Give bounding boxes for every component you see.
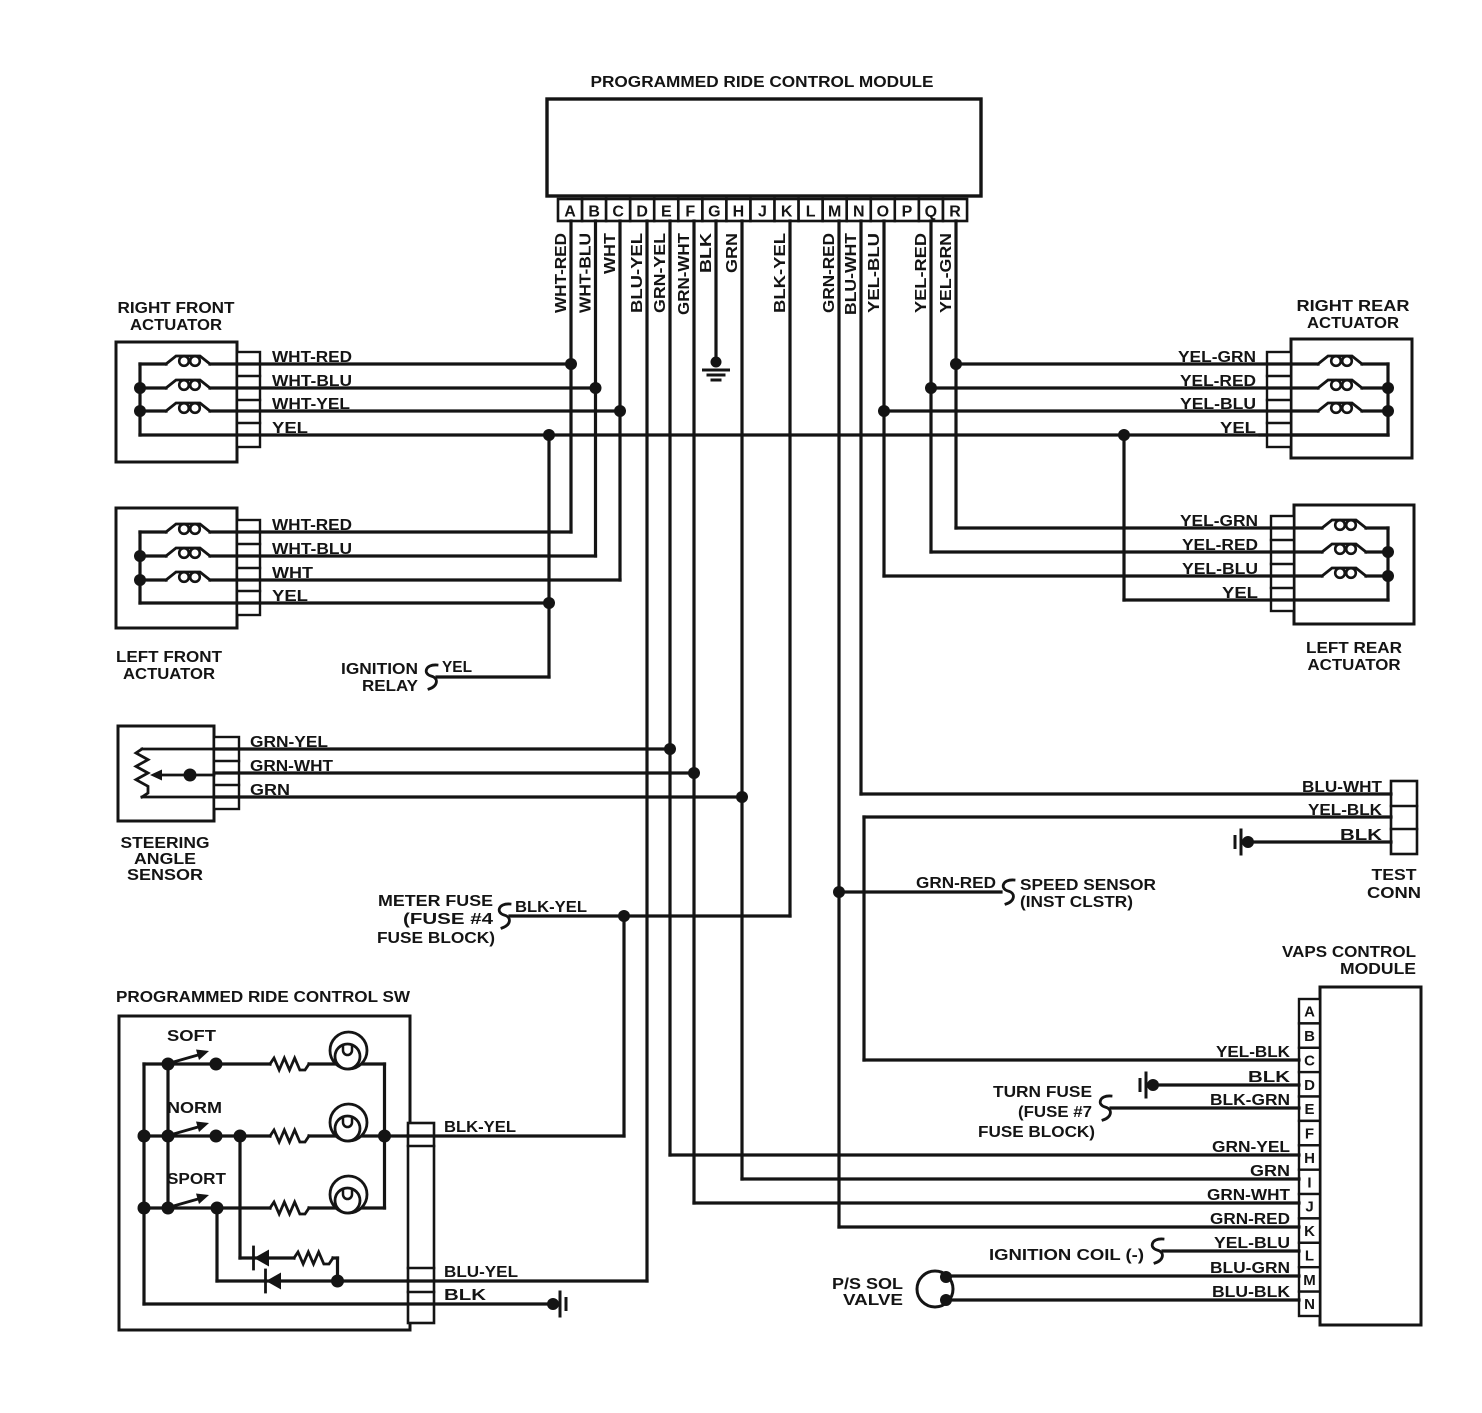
wire YEL-BLU (pin O to LR): [884, 574, 1322, 577]
svg-text:J: J: [1305, 1199, 1313, 1216]
wire diode branch row: [240, 1256, 294, 1259]
lamp SPORT: [330, 1176, 367, 1213]
wire BLK-YEL (switch to meter fuse): [408, 1134, 624, 1137]
wire pin A vertical: [569, 221, 572, 532]
svg-text:SENSOR: SENSOR: [127, 867, 203, 884]
svg-text:BLK-YEL: BLK-YEL: [444, 1119, 516, 1136]
label BLK (VAPS): [1248, 1069, 1291, 1086]
svg-text:ACTUATOR: ACTUATOR: [1308, 657, 1401, 674]
svg-text:YEL: YEL: [272, 588, 308, 605]
junction YEL / rear branch: [1118, 429, 1130, 441]
wire BLK (VAPS D ground): [1153, 1083, 1299, 1086]
wire NORM branch vertical: [238, 1136, 241, 1258]
junction right front bus row2: [134, 382, 146, 394]
label SOFT: [167, 1028, 216, 1045]
label WHT-YEL (RF): [272, 396, 350, 413]
wire WHT-BLU (LF to pin B): [210, 554, 596, 557]
steering angle sensor label: [121, 835, 210, 884]
svg-text:GRN-YEL: GRN-YEL: [652, 233, 669, 313]
programmed ride control switch body: [119, 1016, 410, 1330]
module U1 body: [547, 99, 981, 196]
label WHT-BLU (pin B): [578, 233, 595, 313]
wire BLK row: [144, 1302, 553, 1305]
svg-text:M: M: [1303, 1272, 1316, 1289]
label YEL-GRN (RR): [1178, 349, 1256, 366]
svg-text:GRN-YEL: GRN-YEL: [250, 734, 328, 751]
wire YEL-GRN (pin R to LR): [956, 526, 1322, 529]
label BLK-YEL (switch out): [444, 1119, 516, 1136]
label WHT-RED (LF): [272, 517, 352, 534]
label YEL (LF): [272, 588, 308, 605]
svg-text:ACTUATOR: ACTUATOR: [123, 666, 215, 683]
svg-text:YEL-GRN: YEL-GRN: [1180, 513, 1258, 530]
programmed ride control switch label: [116, 989, 411, 1006]
label BLU-WHT (pin N): [843, 233, 860, 315]
diode D1: [254, 1247, 270, 1269]
label BLK (switch out): [444, 1287, 487, 1304]
wire pin Q vertical: [929, 221, 932, 552]
left front actuator connector: [237, 520, 260, 615]
svg-text:WHT-RED: WHT-RED: [553, 233, 570, 313]
junction left front bus row3: [134, 574, 146, 586]
svg-text:R: R: [949, 204, 961, 221]
test connector body: [1391, 781, 1417, 854]
junction valve pin 1: [940, 1271, 952, 1283]
svg-text:SOFT: SOFT: [167, 1028, 216, 1045]
wire BLU-WHT (pin N to test conn): [861, 792, 1391, 795]
svg-text:IGNITION: IGNITION: [341, 661, 418, 678]
svg-text:WHT-BLU: WHT-BLU: [272, 541, 352, 558]
label GRN-RED (speed sensor): [916, 875, 996, 892]
label YEL (RF): [272, 420, 308, 437]
coil (right front actuator row 2): [140, 380, 210, 390]
svg-text:CONN: CONN: [1367, 885, 1421, 902]
label GRN-RED (VAPS): [1210, 1211, 1290, 1228]
wire YEL-BLU (pin O to RR): [884, 409, 1318, 412]
svg-text:RIGHT REAR: RIGHT REAR: [1297, 298, 1410, 315]
label WHT-BLU (LF): [272, 541, 352, 558]
wire LF YEL row: [140, 601, 549, 604]
wire YEL-BLK (test conn to VAPS C): [864, 817, 1391, 1060]
svg-text:MODULE: MODULE: [1340, 961, 1416, 978]
right front actuator common bus: [138, 364, 141, 435]
junction pin A / WHT-RED: [565, 358, 577, 370]
svg-text:N: N: [853, 204, 865, 221]
svg-text:YEL-BLK: YEL-BLK: [1216, 1044, 1290, 1061]
left front actuator common bus: [138, 532, 141, 603]
left rear actuator common bus: [1386, 528, 1389, 600]
coil (left rear actuator row 2): [1322, 544, 1388, 554]
svg-text:B: B: [588, 204, 600, 221]
coil (left front actuator row 1): [140, 524, 210, 534]
label YEL-BLU (VAPS): [1214, 1235, 1290, 1252]
label GRN-YEL (sensor): [250, 734, 328, 751]
VAPS control module label: [1282, 944, 1416, 978]
wire pin F vertical: [692, 221, 695, 1203]
svg-text:BLU-WHT: BLU-WHT: [843, 233, 860, 315]
svg-text:GRN: GRN: [1250, 1163, 1290, 1180]
junction YEL / ignition-relay branch: [543, 429, 555, 441]
wire YEL (LR branch): [1124, 598, 1388, 601]
svg-text:G: G: [708, 204, 720, 221]
wire pin B vertical: [594, 221, 597, 556]
label GRN-YEL (pin E): [652, 233, 669, 313]
junction LF YEL / ignition branch: [543, 597, 555, 609]
svg-text:YEL-BLU: YEL-BLU: [1214, 1235, 1290, 1252]
switch rail pole: [166, 1064, 169, 1208]
turn fuse label: [978, 1084, 1095, 1141]
svg-text:YEL-BLK: YEL-BLK: [1308, 802, 1382, 819]
svg-text:B: B: [1304, 1028, 1315, 1045]
wire YEL-BLK (to VAPS C): [864, 1058, 1299, 1061]
coil (right rear actuator row 3): [1318, 403, 1388, 413]
wire WHT-YEL (RF to pin C): [210, 409, 620, 412]
svg-text:YEL-GRN: YEL-GRN: [938, 233, 955, 313]
svg-text:FUSE BLOCK): FUSE BLOCK): [377, 930, 495, 947]
label GRN (pin H): [724, 233, 741, 273]
svg-text:GRN: GRN: [250, 782, 290, 799]
left front actuator body: [116, 508, 237, 628]
svg-text:GRN-WHT: GRN-WHT: [1207, 1187, 1290, 1204]
label YEL-RED (pin Q): [913, 233, 930, 313]
VAPS pin header A-N: [1299, 999, 1320, 1316]
junction left rear bus row2: [1382, 546, 1394, 558]
svg-text:Q: Q: [925, 204, 937, 221]
junction right rear bus row3: [1382, 405, 1394, 417]
potentiometer (steering sensor): [136, 749, 214, 797]
label YEL-GRN (LR): [1180, 513, 1258, 530]
coil (right front actuator row 3): [140, 403, 210, 413]
junction BLK-YEL / ride-control-switch branch: [618, 910, 630, 922]
label BLU-GRN (VAPS): [1210, 1260, 1290, 1277]
svg-text:GRN-RED: GRN-RED: [916, 875, 996, 892]
svg-text:A: A: [1304, 1004, 1315, 1021]
svg-text:GRN-RED: GRN-RED: [821, 233, 838, 313]
switch SPORT: [162, 1194, 224, 1215]
module U1 pin header A-R: [558, 199, 967, 221]
label GRN-RED (pin M): [821, 233, 838, 313]
label YEL-GRN (pin R): [938, 233, 955, 313]
svg-text:LEFT FRONT: LEFT FRONT: [116, 649, 222, 666]
svg-text:ACTUATOR: ACTUATOR: [1307, 315, 1399, 332]
svg-text:WHT-BLU: WHT-BLU: [578, 233, 595, 313]
svg-text:WHT-BLU: WHT-BLU: [272, 373, 352, 390]
svg-text:C: C: [1304, 1053, 1315, 1070]
junction pin O / YEL-BLU: [878, 405, 890, 417]
wire pin D vertical: [645, 221, 648, 1281]
wire pin R vertical: [954, 221, 957, 528]
resistor NORM: [270, 1130, 309, 1142]
svg-text:L: L: [1305, 1248, 1314, 1265]
svg-text:SPORT: SPORT: [167, 1171, 226, 1188]
wire BLK (test conn ground): [1248, 840, 1391, 843]
label YEL-RED (LR): [1182, 537, 1258, 554]
junction right front bus row3: [134, 405, 146, 417]
wire YEL-GRN (pin R to RR): [956, 362, 1318, 365]
svg-text:GRN-RED: GRN-RED: [1210, 1211, 1290, 1228]
svg-text:BLU-BLK: BLU-BLK: [1212, 1284, 1290, 1301]
wire YEL-BLU (ignition coil to VAPS L): [1163, 1249, 1299, 1252]
coil (left front actuator row 3): [140, 572, 210, 582]
wire BLU-GRN (valve to VAPS M): [946, 1274, 1299, 1277]
svg-text:TEST: TEST: [1372, 867, 1417, 884]
svg-text:D: D: [1304, 1077, 1315, 1094]
resistor SPORT: [270, 1202, 309, 1214]
junction pin M / GRN-RED: [833, 886, 845, 898]
svg-text:P: P: [902, 204, 913, 221]
label YEL-BLK (test conn): [1308, 802, 1382, 819]
svg-text:ACTUATOR: ACTUATOR: [130, 317, 222, 334]
svg-text:YEL-BLU: YEL-BLU: [1182, 561, 1258, 578]
wire YEL supply row: [140, 433, 1388, 436]
wire pin K vertical: [788, 221, 791, 916]
svg-text:IGNITION COIL (-): IGNITION COIL (-): [989, 1247, 1144, 1264]
wire pin O vertical: [882, 221, 885, 576]
svg-text:GRN-WHT: GRN-WHT: [676, 233, 693, 315]
label WHT-RED (RF): [272, 349, 352, 366]
junction right rear bus row2: [1382, 382, 1394, 394]
svg-text:YEL: YEL: [1222, 585, 1258, 602]
switch NORM: [162, 1122, 223, 1143]
svg-text:I: I: [1307, 1174, 1311, 1191]
junction pin C / WHT-YEL: [614, 405, 626, 417]
junction NORM branch: [234, 1130, 247, 1143]
wire YEL supply row through RR connector: [1260, 433, 1388, 436]
label BLK-YEL (meter fuse): [515, 899, 587, 916]
wire YEL-RED (pin Q to LR): [931, 550, 1322, 553]
wire GRN-RED (pin M to VAPS K): [839, 1225, 1299, 1228]
svg-text:N: N: [1304, 1296, 1315, 1313]
wire GRN (sensor to pin H): [214, 795, 742, 798]
wire pin C vertical: [618, 221, 621, 580]
junction left rear bus row3: [1382, 570, 1394, 582]
label GRN (sensor): [250, 782, 290, 799]
wire BLK-YEL vertical to switch: [622, 916, 625, 1136]
label WHT (LF): [272, 565, 313, 582]
label BLK (pin G): [698, 232, 715, 273]
svg-text:GRN: GRN: [724, 233, 741, 273]
label BLK-GRN (VAPS): [1210, 1092, 1290, 1109]
label YEL (LR): [1222, 585, 1258, 602]
label GRN-WHT (pin F): [676, 233, 693, 315]
junction pin H / GRN: [736, 791, 748, 803]
svg-text:VALVE: VALVE: [843, 1292, 903, 1309]
svg-text:BLK: BLK: [698, 232, 715, 273]
wire GRN-YEL (pin E to VAPS H): [670, 1153, 1299, 1156]
svg-text:D: D: [636, 204, 648, 221]
wire GRN-YEL (sensor to pin E): [214, 747, 670, 750]
wire WHT-BLU (RF to pin B): [210, 386, 596, 389]
right front actuator connector: [237, 352, 260, 447]
lamp output rail: [383, 1064, 386, 1208]
svg-text:A: A: [564, 204, 576, 221]
wire WHT-RED (RF to pin A): [210, 362, 571, 365]
svg-text:BLU-GRN: BLU-GRN: [1210, 1260, 1290, 1277]
wire pin M vertical: [837, 221, 840, 1227]
svg-text:BLU-YEL: BLU-YEL: [629, 233, 646, 313]
label WHT-BLU (RF): [272, 373, 352, 390]
wire YEL vertical to ignition relay: [547, 435, 550, 677]
ignition coil squiggle: [1152, 1239, 1163, 1263]
wire GRN-RED (pin M to speed sensor): [839, 890, 1001, 893]
wire WHT-RED (LF to pin A): [210, 530, 571, 533]
label GRN-WHT (VAPS): [1207, 1187, 1290, 1204]
junction pin R / YEL-GRN: [950, 358, 962, 370]
svg-text:BLK-YEL: BLK-YEL: [515, 899, 587, 916]
svg-text:VAPS CONTROL: VAPS CONTROL: [1282, 944, 1416, 961]
P/S solenoid valve body: [917, 1271, 953, 1307]
junction pin E / GRN-YEL: [664, 743, 676, 755]
left front actuator label: [116, 649, 222, 683]
junction left front bus row2: [134, 550, 146, 562]
svg-text:YEL-RED: YEL-RED: [1180, 373, 1256, 390]
right rear actuator common bus: [1386, 364, 1389, 435]
ground (switch BLK): [547, 1292, 566, 1316]
left rear actuator label: [1306, 640, 1402, 674]
right rear actuator label: [1297, 298, 1410, 332]
label BLK-YEL (pin K): [772, 233, 789, 313]
meter fuse squiggle: [499, 904, 510, 928]
test connector label: [1367, 867, 1421, 902]
svg-text:PROGRAMMED RIDE CONTROL MODULE: PROGRAMMED RIDE CONTROL MODULE: [591, 74, 934, 91]
wire NORM row: [144, 1134, 408, 1137]
left rear actuator connector: [1271, 516, 1294, 611]
lamp SOFT: [330, 1032, 367, 1069]
wire SOFT row: [144, 1062, 385, 1065]
label GRN (VAPS): [1250, 1163, 1290, 1180]
label WHT-RED (pin A): [553, 233, 570, 313]
wire pin E vertical: [668, 221, 671, 1155]
wire SPORT row: [144, 1206, 385, 1209]
svg-text:K: K: [1304, 1223, 1315, 1240]
svg-text:WHT-RED: WHT-RED: [272, 517, 352, 534]
label YEL-BLK (VAPS): [1216, 1044, 1290, 1061]
wire BLK-GRN (turn fuse to VAPS E): [1111, 1106, 1299, 1109]
svg-text:(FUSE #4: (FUSE #4: [403, 911, 493, 928]
left rear actuator body: [1294, 505, 1414, 624]
svg-text:WHT: WHT: [602, 233, 619, 274]
wire SPORT contact vertical: [215, 1208, 218, 1281]
label GRN-YEL (VAPS): [1212, 1139, 1290, 1156]
label BLU-YEL (pin D): [629, 233, 646, 313]
label GRN-WHT (sensor): [250, 758, 333, 775]
right rear actuator body: [1291, 339, 1412, 458]
speed sensor squiggle: [1003, 880, 1014, 904]
wire GRN (pin H to VAPS I): [742, 1177, 1299, 1180]
meter fuse label: [377, 893, 495, 947]
svg-text:(FUSE #7: (FUSE #7: [1018, 1104, 1092, 1121]
wire YEL-RED (pin Q to RR): [931, 386, 1318, 389]
junction pin Q / YEL-RED: [925, 382, 937, 394]
svg-text:M: M: [828, 204, 841, 221]
diode D2: [266, 1270, 282, 1292]
svg-text:P/S SOL: P/S SOL: [832, 1276, 903, 1293]
label WHT (pin C): [602, 233, 619, 274]
resistor SOFT: [270, 1058, 309, 1070]
svg-text:YEL-RED: YEL-RED: [1182, 537, 1258, 554]
svg-text:BLK-GRN: BLK-GRN: [1210, 1092, 1290, 1109]
resistor diode branch: [294, 1252, 333, 1264]
svg-text:(INST CLSTR): (INST CLSTR): [1020, 894, 1133, 911]
svg-text:BLK-YEL: BLK-YEL: [772, 233, 789, 313]
svg-text:GRN-WHT: GRN-WHT: [250, 758, 333, 775]
P/S solenoid valve label: [832, 1276, 903, 1309]
turn fuse squiggle: [1100, 1096, 1111, 1120]
svg-text:GRN-YEL: GRN-YEL: [1212, 1139, 1290, 1156]
svg-text:PROGRAMMED RIDE CONTROL SW: PROGRAMMED RIDE CONTROL SW: [116, 989, 411, 1006]
label YEL-BLU (RR): [1180, 396, 1256, 413]
coil (right rear actuator row 1): [1318, 356, 1388, 366]
svg-text:RELAY: RELAY: [362, 678, 418, 695]
svg-text:WHT-RED: WHT-RED: [272, 349, 352, 366]
label YEL (ignition relay): [442, 659, 472, 676]
svg-text:BLK: BLK: [444, 1287, 487, 1304]
wire GRN-WHT (pin F to VAPS J): [694, 1201, 1299, 1204]
svg-text:BLK: BLK: [1340, 827, 1383, 844]
svg-text:K: K: [781, 204, 793, 221]
label YEL-RED (RR): [1180, 373, 1256, 390]
svg-text:WHT: WHT: [272, 565, 313, 582]
svg-text:YEL: YEL: [442, 659, 472, 676]
coil (left rear actuator row 1): [1322, 520, 1388, 530]
wire pin H vertical: [740, 221, 743, 1179]
svg-text:F: F: [1305, 1126, 1314, 1143]
svg-text:L: L: [806, 204, 816, 221]
label YEL-BLU (pin O): [866, 233, 883, 313]
right front actuator body: [116, 342, 237, 462]
junction diode branch / BLU-YEL: [331, 1275, 344, 1288]
wire GRN-WHT (sensor to pin F): [214, 771, 694, 774]
svg-text:RIGHT FRONT: RIGHT FRONT: [118, 300, 235, 317]
svg-text:ANGLE: ANGLE: [134, 851, 196, 868]
svg-text:E: E: [661, 204, 672, 221]
svg-text:FUSE BLOCK): FUSE BLOCK): [978, 1124, 1095, 1141]
svg-text:YEL-BLU: YEL-BLU: [1180, 396, 1256, 413]
svg-text:F: F: [685, 204, 695, 221]
svg-text:BLK: BLK: [1248, 1069, 1291, 1086]
ignition relay squiggle: [426, 665, 437, 689]
lamp NORM: [330, 1104, 367, 1141]
svg-text:O: O: [877, 204, 889, 221]
svg-text:BLU-WHT: BLU-WHT: [1302, 779, 1382, 796]
svg-text:YEL-BLU: YEL-BLU: [866, 233, 883, 313]
right front actuator label: [118, 300, 235, 334]
steering angle sensor body: [118, 726, 214, 821]
svg-text:YEL-GRN: YEL-GRN: [1178, 349, 1256, 366]
module U1: PROGRAMMED RIDE CONTROL MODULE title: [591, 74, 934, 91]
wire YEL ignition relay: [437, 675, 549, 678]
switch SOFT: [162, 1050, 223, 1071]
label YEL (RR): [1220, 420, 1256, 437]
wire YEL vertical rear: [1122, 435, 1125, 600]
svg-text:WHT-YEL: WHT-YEL: [272, 396, 350, 413]
coil (left front actuator row 2): [140, 548, 210, 558]
wire pin G vertical: [714, 221, 717, 362]
svg-text:LEFT REAR: LEFT REAR: [1306, 640, 1402, 657]
coil (left rear actuator row 3): [1322, 568, 1388, 578]
svg-text:TURN FUSE: TURN FUSE: [993, 1084, 1092, 1101]
label BLU-BLK (VAPS): [1212, 1284, 1290, 1301]
svg-text:E: E: [1304, 1101, 1314, 1118]
label BLU-YEL (switch out): [444, 1264, 518, 1281]
coil (right front actuator row 1): [140, 356, 210, 366]
label YEL-BLU (LR): [1182, 561, 1258, 578]
label BLK (test conn): [1340, 827, 1383, 844]
svg-text:STEERING: STEERING: [121, 835, 210, 852]
svg-text:SPEED SENSOR: SPEED SENSOR: [1020, 877, 1156, 894]
svg-text:YEL-RED: YEL-RED: [913, 233, 930, 313]
label SPORT: [167, 1171, 226, 1188]
